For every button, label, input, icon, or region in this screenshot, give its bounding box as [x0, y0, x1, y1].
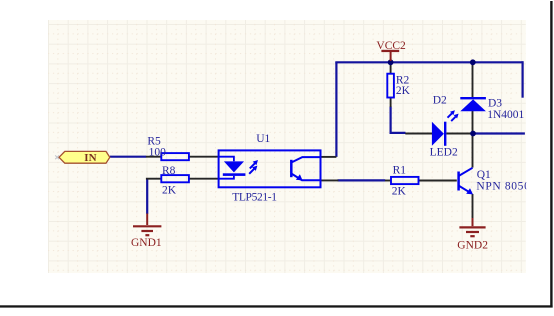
svg-text:D3: D3 [488, 97, 502, 109]
svg-text:U1: U1 [256, 133, 270, 145]
svg-text:TLP521-1: TLP521-1 [232, 191, 277, 203]
svg-text:NPN 8050: NPN 8050 [476, 181, 530, 193]
svg-text:GND2: GND2 [457, 240, 488, 252]
svg-text:Q1: Q1 [477, 169, 491, 181]
svg-text:2K: 2K [162, 184, 177, 196]
svg-text:VCC2: VCC2 [376, 40, 406, 52]
svg-text:R8: R8 [162, 165, 176, 177]
svg-text:R1: R1 [393, 165, 407, 177]
svg-text:LED2: LED2 [430, 147, 458, 159]
svg-text:D2: D2 [433, 94, 447, 106]
svg-text:2K: 2K [392, 186, 407, 198]
svg-text:1N4001: 1N4001 [487, 109, 524, 121]
svg-text:100: 100 [149, 146, 167, 158]
svg-text:GND1: GND1 [131, 237, 162, 249]
svg-text:IN: IN [84, 152, 96, 164]
svg-text:2K: 2K [396, 85, 411, 97]
